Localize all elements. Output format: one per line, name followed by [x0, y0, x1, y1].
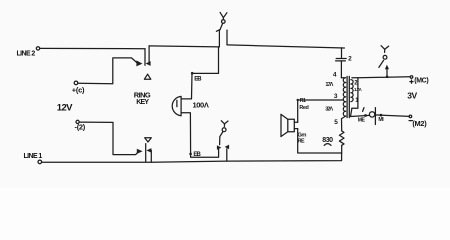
ring key upper left contact arrow [136, 60, 142, 66]
bottom jack left contact arrow [217, 145, 221, 150]
ring key lower right contact arrow [147, 148, 152, 153]
ring key lower left contact arrow [137, 149, 143, 154]
svg-text:Red: Red [299, 105, 308, 111]
bottom plug shaft [220, 132, 223, 145]
node ME [364, 114, 367, 117]
receiver inner mark [176, 100, 178, 106]
ring key upper make mark [144, 74, 150, 79]
capacitor bottom lead [340, 61, 342, 78]
label minus M2 [409, 120, 412, 122]
wire MI to -(M2) [375, 115, 409, 117]
bottom long wire [42, 153, 342, 162]
svg-text:-(2): -(2) [75, 123, 86, 132]
receiver top lead [181, 73, 192, 99]
transmitter leads [294, 122, 297, 128]
capacitor top lead [341, 48, 343, 58]
transmitter box [288, 119, 295, 131]
jack frame bar [374, 108, 376, 125]
transformer core [347, 76, 349, 117]
ring key lower right contact lead [150, 150, 152, 162]
label + MC [410, 80, 413, 83]
bottom plug Y [221, 121, 228, 127]
transformer secondary bracket [352, 78, 358, 108]
transformer pin 5 lead [342, 116, 346, 131]
terminal -(M2) [409, 115, 412, 118]
node switch base [386, 76, 389, 79]
wire ring key to top jack [149, 46, 219, 47]
svg-text:KEY: KEY [136, 99, 149, 106]
wire line2 to ring key [40, 47, 145, 49]
svg-text:RE: RE [298, 138, 305, 144]
ring key lower make mark [145, 138, 152, 142]
wire pin 1 to ME [351, 108, 370, 116]
bottom jack right contact lead [226, 149, 228, 161]
receiver bottom lead [181, 113, 191, 154]
top plug Y [220, 12, 227, 19]
wire top jack to capacitor [227, 45, 344, 48]
top jack left prong [216, 30, 219, 47]
ring key upper right contact arrow [146, 61, 151, 66]
right plug lever [379, 60, 384, 67]
jack circle ME [369, 112, 374, 117]
terminal +(c) [74, 81, 78, 85]
svg-text:3: 3 [334, 93, 338, 100]
ring key upper blade [144, 49, 146, 65]
top jack right prong [226, 30, 228, 45]
capacitor C 2 plates [336, 59, 347, 61]
jack circle tail [363, 108, 364, 112]
svg-text:3V: 3V [407, 90, 417, 100]
right contact arrow [385, 65, 389, 70]
resistor bottom lead [341, 145, 343, 153]
terminal LINE 1 [38, 160, 42, 164]
right plug tip [383, 55, 387, 59]
svg-text:4: 4 [333, 72, 337, 79]
bottom plug tip [222, 128, 226, 132]
terminal +(MC) [410, 76, 413, 79]
wire pin 2 to +(MC) [358, 76, 410, 79]
top plug tip [222, 20, 226, 24]
svg-text:(M2): (M2) [412, 119, 427, 128]
svg-text:R1: R1 [300, 98, 306, 104]
node MI [380, 114, 383, 117]
svg-text:+(c): +(c) [72, 85, 85, 94]
wire transmitter to tap 3 [298, 100, 344, 122]
right contact lead [386, 69, 388, 77]
wire transmitter to bottom junction [298, 129, 342, 153]
terminal -(2) [76, 120, 79, 123]
receiver 100ohm body [172, 96, 181, 115]
node EB lower [189, 153, 192, 156]
node EB upper [191, 72, 194, 75]
svg-text:LINE 2: LINE 2 [17, 50, 36, 57]
transmitter cone [281, 114, 288, 136]
top plug shaft [220, 23, 223, 30]
label 830 ohm mark [324, 144, 331, 146]
transmitter front bar [280, 114, 282, 136]
ring key upper right prong [148, 46, 150, 63]
wire -(2) arm [79, 122, 138, 155]
resistor 830 ohm [339, 131, 344, 145]
bottom jack right contact arrow [225, 145, 229, 150]
wire top jack to EB node [192, 47, 218, 74]
wire +(c) arm [78, 58, 137, 84]
svg-text:LINE 1: LINE 1 [24, 153, 43, 160]
transformer primary winding [341, 78, 345, 116]
svg-text:100Λ: 100Λ [193, 100, 209, 109]
svg-text:5: 5 [334, 119, 338, 126]
wire EB node to bottom jack [191, 149, 219, 157]
svg-text:ME: ME [358, 118, 366, 124]
ring key lower blade [145, 144, 147, 162]
svg-text:2: 2 [348, 55, 352, 62]
node tap corner [297, 99, 299, 101]
svg-text:12V: 12V [57, 102, 73, 113]
terminal LINE 2 [36, 47, 39, 50]
svg-text:(MC): (MC) [414, 78, 428, 85]
transformer secondary winding [351, 80, 353, 102]
right plug Y [381, 46, 389, 53]
